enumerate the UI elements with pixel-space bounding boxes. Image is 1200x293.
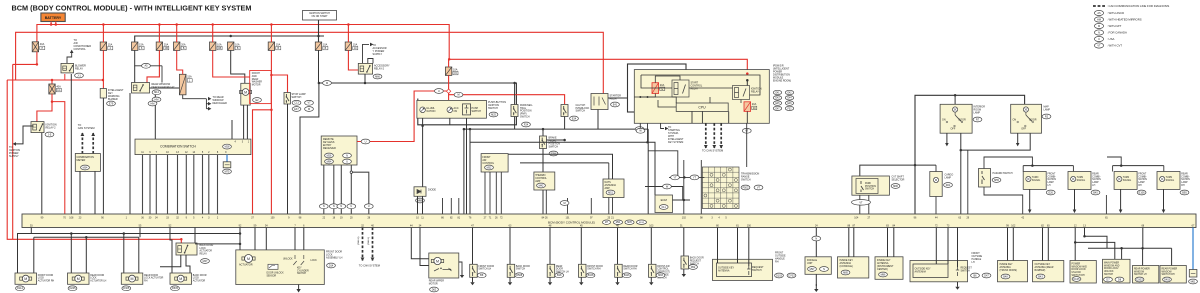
request switch LH symbol <box>956 267 959 276</box>
svg-text:10A: 10A <box>235 43 240 46</box>
CAN line IPDM 2 <box>712 123 716 148</box>
connector F11 <box>659 205 668 210</box>
thermo control amp <box>534 172 555 190</box>
wire TRS feed row <box>669 176 704 178</box>
svg-text:N: N <box>346 154 348 157</box>
wire BCM 54 down <box>265 228 267 250</box>
junction lamp return <box>960 149 963 152</box>
wire BCM 83 to rear bumper antenna 2 <box>1047 228 1049 261</box>
junction <box>647 96 649 98</box>
transmission range switch <box>702 167 739 209</box>
wire CVT to BCM 104 <box>859 195 861 214</box>
svg-text:U: U <box>350 205 352 208</box>
connector M42 <box>537 183 546 188</box>
front door switch LH <box>470 264 478 277</box>
inside key antenna instrument center <box>875 257 903 280</box>
svg-text:YT: YT <box>673 176 677 179</box>
connector N <box>337 204 346 209</box>
connector M96 <box>891 184 900 189</box>
svg-text:IPDM E/R(INTELLIGENTPOWERDISTR: IPDM E/R(INTELLIGENTPOWERDISTRIBUTIONMOD… <box>773 65 791 83</box>
svg-text:10A: 10A <box>276 43 281 46</box>
svg-text:E44: E44 <box>787 98 792 100</box>
connector M <box>323 81 332 86</box>
wire accessory line to BCM 98 <box>300 83 319 214</box>
svg-text:M25: M25 <box>491 113 496 116</box>
arrow to starting system <box>665 127 668 131</box>
wire BCM 81 to outside key antenna RH 2 <box>737 228 739 264</box>
wire to CVT shift selector <box>860 95 915 176</box>
wire push-button switch loop <box>319 83 517 125</box>
connector N <box>343 153 352 158</box>
wire brake switch to clutch line <box>547 139 565 141</box>
wire IPDM left drop 2 <box>647 97 649 142</box>
svg-text:M34: M34 <box>83 166 88 169</box>
connector M <box>560 201 569 206</box>
interior room lamp ground arrow <box>945 133 949 146</box>
svg-text:IGNITIONRELAY-2: IGNITIONRELAY-2 <box>46 124 57 130</box>
svg-text:E46: E46 <box>787 103 792 105</box>
rear combination lamp RH ground wire into BCM <box>1162 189 1166 213</box>
wire room lamp to map lamp <box>961 133 1030 150</box>
connector M86 <box>416 198 425 203</box>
svg-text:D105: D105 <box>1074 278 1081 281</box>
svg-text:M: M <box>1098 25 1100 28</box>
connector B18 <box>555 273 564 278</box>
connector B43 <box>1036 274 1045 279</box>
wire front air control to BCM <box>500 172 502 214</box>
wire PNP switch down <box>514 117 516 130</box>
svg-text:J-1: J-1 <box>77 74 81 77</box>
connector D505 <box>171 286 180 291</box>
junction rear LH feed <box>1141 247 1144 250</box>
wire to actuator 3b <box>138 237 140 273</box>
front combination lamp LH <box>1023 172 1046 190</box>
wire IPDM to TRS <box>746 123 748 167</box>
connector B95 <box>1180 190 1189 195</box>
wire RKE receiver to BCM <box>333 165 335 214</box>
wire red to back door relay <box>180 239 182 243</box>
outside key antenna RH <box>717 263 752 277</box>
wire to stop lamp switch <box>271 75 287 93</box>
fuse 10A 15 <box>445 67 458 75</box>
connector D508 <box>515 273 524 278</box>
push-button ignition switch body <box>417 100 487 118</box>
wire front air control to BCM <box>484 172 486 214</box>
arrow to A/C control <box>70 50 74 53</box>
svg-text:VT: VT <box>859 201 863 204</box>
wire BCM 52 to back door actuator <box>170 228 172 274</box>
junction red branch <box>270 109 273 112</box>
wire accessory relay out up <box>363 44 370 63</box>
wire RKE receiver power red <box>357 91 449 142</box>
wire fuse 10A-CB to washer highlight <box>213 50 250 77</box>
wire combination switch to BCM <box>149 155 151 214</box>
svg-text:: WITH CVT: : WITH CVT <box>1107 44 1122 48</box>
wire BCM 34 to rear wiper motor 2 <box>420 228 429 266</box>
ignition switch ref box <box>303 11 337 21</box>
connector B108 <box>586 273 595 278</box>
wire to BCM pin 98 <box>700 160 702 214</box>
connector E47 <box>773 106 781 110</box>
svg-text:F24: F24 <box>524 123 529 126</box>
wire combination switch to BCM <box>142 155 144 214</box>
wire illumination down <box>422 118 424 126</box>
wire horizontal y129 <box>464 128 648 130</box>
svg-text:B48: B48 <box>1003 275 1008 278</box>
wire BCM 55 down <box>139 228 141 238</box>
wire to BCM 86 <box>442 198 444 214</box>
wire red branch to BCM 37 <box>253 110 272 214</box>
svg-text:N: N <box>323 205 325 208</box>
rear door switch RH <box>615 264 623 277</box>
wire IPDM left drop 1 <box>639 97 641 129</box>
CVT shift selector <box>852 176 890 195</box>
connector J-5 <box>45 132 54 137</box>
junction bus A <box>158 23 161 26</box>
connector W <box>636 128 645 133</box>
wire left rail to door lock power <box>7 80 181 239</box>
svg-text:E43: E43 <box>775 98 780 100</box>
wire blower relay left pin to rail <box>64 74 66 80</box>
junction bus A <box>347 23 350 26</box>
CAN line IPDM 1 <box>704 123 708 148</box>
connector M28 <box>223 144 232 149</box>
connector M93 <box>656 273 665 278</box>
connector N <box>319 204 328 209</box>
svg-text:DOOR: DOOR <box>1029 119 1036 122</box>
svg-text:CPU: CPU <box>698 106 706 110</box>
connector D703 <box>787 273 796 278</box>
wire wiper motor ground lead <box>459 262 462 270</box>
fuse 15A 1 <box>179 74 192 95</box>
wire ignition bus C <box>135 36 324 42</box>
svg-text:AS: AS <box>1097 12 1101 15</box>
svg-text:LOCK: LOCK <box>311 260 318 262</box>
wire fuse to washer motor <box>231 50 245 83</box>
svg-text:10A: 10A <box>453 68 458 71</box>
wire BCM 7 down <box>294 228 296 256</box>
svg-text:M: M <box>436 259 439 263</box>
fuse 20A CB <box>156 42 169 50</box>
connector E42 <box>785 90 793 94</box>
junction turn LH <box>1031 164 1034 167</box>
front and rear washer motor <box>241 83 250 105</box>
front outside handle RH assembly <box>713 259 773 280</box>
svg-text:M51: M51 <box>608 191 613 194</box>
front combination lamp RH bulb symbol <box>1117 176 1122 181</box>
connector M26 <box>325 153 334 158</box>
wire fuse to ignition feed line <box>318 50 320 83</box>
svg-text:20A: 20A <box>752 103 757 106</box>
connector V7 <box>305 100 314 105</box>
svg-text:: CAN COMMUNICATION LINE FOR D: : CAN COMMUNICATION LINE FOR DIAGNOSIS <box>1107 4 1169 8</box>
wire combination switch to BCM <box>155 155 157 214</box>
open junction circle <box>350 171 352 173</box>
wire to diode <box>422 126 424 187</box>
combination meter <box>75 154 100 172</box>
svg-text:G: G <box>661 89 663 91</box>
svg-text:B108: B108 <box>588 274 594 277</box>
wire IPDM internal to CPU <box>709 97 711 103</box>
diode <box>414 187 426 197</box>
svg-text:N: N <box>1098 31 1100 34</box>
svg-text:10A: 10A <box>323 43 328 46</box>
svg-text:E34: E34 <box>572 117 577 120</box>
svg-text:U: U <box>346 160 348 163</box>
wire y129 to BCM 2 <box>469 129 471 214</box>
svg-text:10A: 10A <box>217 43 222 46</box>
wire BCM 83 to instrument antenna <box>887 228 889 257</box>
svg-text:F11: F11 <box>662 206 667 209</box>
junction bus A <box>50 23 53 26</box>
back door request switch <box>681 256 689 269</box>
inside key antenna trunk room <box>998 261 1028 282</box>
svg-text:100: 100 <box>747 225 752 228</box>
svg-text:C13: C13 <box>294 102 299 105</box>
front door switch LH ground <box>470 277 474 285</box>
junction turn RH <box>1120 164 1123 167</box>
wire combination switch to BCM <box>202 155 204 214</box>
svg-text:M95: M95 <box>627 222 632 224</box>
stop lamp switch <box>284 93 290 105</box>
wire IPDM internal 2 <box>640 94 655 98</box>
wire NATS to BCM 25 <box>608 198 610 215</box>
svg-text:M94: M94 <box>327 160 332 163</box>
rear power window switch RH <box>1160 266 1186 284</box>
wire fuse 10A-15 down <box>448 75 450 118</box>
svg-text:F502: F502 <box>743 186 749 189</box>
wire BCM 88 to console antenna <box>848 228 850 257</box>
wire washer motor to combination switch <box>243 105 245 139</box>
door unlock sensor symbol <box>268 264 278 269</box>
wire BCM 84 to instrument antenna 2 <box>893 228 895 257</box>
wire left rail 2 <box>12 64 14 239</box>
wire starter relay down <box>597 110 599 130</box>
rear wiper motor contact <box>434 268 452 271</box>
svg-text:D305: D305 <box>123 287 130 290</box>
wire relay to assembly rail <box>195 243 240 245</box>
ignition relay-2 <box>31 122 44 133</box>
wire ECM feed row <box>645 187 683 201</box>
junction <box>639 96 641 98</box>
svg-text:B43: B43 <box>1038 275 1043 278</box>
svg-text:15A: 15A <box>187 76 192 79</box>
wire ignition relay-2 to ignition power supply <box>16 126 34 144</box>
svg-text:E42: E42 <box>787 92 792 94</box>
fuse 10A 10 <box>345 42 358 50</box>
connector E41 <box>773 90 781 94</box>
svg-text:ILLUMI-NATION: ILLUMI-NATION <box>427 107 436 113</box>
svg-text:CB: CB <box>165 48 169 50</box>
front outside handle LH assembly <box>910 261 968 282</box>
connector E43 <box>773 96 781 100</box>
wire to interior room lamp <box>954 95 956 104</box>
wire thermo amp to BCM 26 <box>545 190 547 214</box>
svg-text:N: N <box>340 205 342 208</box>
wire stop lamp switch to BCM 9 <box>287 104 289 214</box>
wire fusible link H out <box>13 52 37 65</box>
connector E26 <box>1046 190 1055 195</box>
fuse 20A G <box>652 83 665 94</box>
junction stop lamp feed <box>270 74 273 77</box>
park/neutral position switch <box>511 105 518 117</box>
rear wiper ground <box>460 270 464 278</box>
cargo lamp <box>930 172 942 197</box>
fuse 10A B <box>228 42 241 50</box>
connector M94 <box>613 220 622 224</box>
connector E44 <box>785 96 793 100</box>
wire washer motor 3 <box>231 120 233 139</box>
svg-text:M14: M14 <box>154 91 159 94</box>
connector VT <box>742 128 751 133</box>
connector D14 <box>327 263 336 268</box>
front air control defrost switch <box>649 264 657 277</box>
ECM <box>655 195 673 213</box>
wire buzzer to BCM pin 90 <box>102 98 104 214</box>
wire IPDM internal relay link <box>689 87 733 89</box>
connector D52 <box>689 265 698 270</box>
svg-text:M61: M61 <box>1191 280 1196 283</box>
connector B45 <box>1091 190 1100 195</box>
cargo lamp bulb <box>933 177 938 182</box>
dongle unit <box>805 257 831 275</box>
svg-text:D114: D114 <box>17 287 23 290</box>
svg-text:D403: D403 <box>1164 278 1171 281</box>
svg-text:B116: B116 <box>624 274 630 277</box>
junction TRS row <box>683 176 686 179</box>
svg-text:M26: M26 <box>327 154 332 157</box>
fuse 20A 49 <box>744 102 757 112</box>
connector E37 <box>292 107 301 112</box>
map lamp <box>1011 104 1042 133</box>
connector D105 <box>1072 277 1081 282</box>
connector N <box>812 236 821 241</box>
connector M94 <box>325 159 334 164</box>
svg-text:101: 101 <box>566 216 571 219</box>
wire combination switch to BCM <box>177 155 179 214</box>
svg-text:M96: M96 <box>893 185 898 188</box>
svg-text:D62: D62 <box>432 288 437 291</box>
wire hazard feed stub <box>983 160 985 169</box>
wire bracket to lamp 2 <box>1072 166 1074 172</box>
junction IPDM power <box>746 72 749 75</box>
svg-text:: USA: : USA <box>1107 37 1114 41</box>
svg-text:ECM: ECM <box>661 198 668 202</box>
connector U <box>347 204 356 209</box>
battery <box>41 13 65 22</box>
rear door lock actuator RH motor <box>126 275 138 282</box>
svg-text:LG: LG <box>57 90 60 92</box>
legend oval HM <box>1094 17 1103 22</box>
wire bus A to fuse <box>270 25 272 43</box>
connector D7 <box>1104 277 1113 282</box>
front door switch LH feed wire <box>472 228 474 265</box>
svg-text:U: U <box>1098 38 1100 41</box>
wire front air control to BCM <box>489 172 491 214</box>
clutch interlock switch <box>561 105 568 117</box>
wire CPU down 2 <box>701 111 703 123</box>
svg-text:ON: ON <box>942 119 946 122</box>
wire y129 right end down to BCM <box>647 129 649 214</box>
connector R21 <box>944 183 953 188</box>
wire BCM 6 down <box>303 228 305 256</box>
washer motor symbol <box>240 89 252 96</box>
wire BCM 80 to outside key antenna RH <box>717 228 719 264</box>
map lamp internals <box>1017 107 1034 127</box>
wire NATS to BCM 21 <box>612 198 614 215</box>
wire to BCM 81 <box>1105 195 1107 214</box>
connector B6 <box>971 273 980 278</box>
wire door lock feed rail <box>18 234 241 274</box>
CAN line IPDM 3 <box>719 123 723 148</box>
wire to fuse 10A-15 <box>448 59 450 67</box>
front door switch RH ground <box>579 277 583 285</box>
wire lower rail power window <box>1088 247 1172 249</box>
svg-text:10A: 10A <box>353 43 358 46</box>
svg-text:D303: D303 <box>1137 278 1144 281</box>
svg-text:M: M <box>247 257 250 261</box>
diode symbol <box>417 190 421 194</box>
svg-text:102: 102 <box>1011 225 1016 228</box>
wire BCM 87 to console antenna 2 <box>853 228 855 257</box>
junction power window b <box>1083 235 1086 238</box>
wire CVT to BCM 27 <box>868 195 870 214</box>
intelligent key warning buzzer <box>100 89 106 99</box>
back door lock actuator <box>170 273 192 284</box>
wire battery bus B <box>16 32 604 93</box>
wire diode to BCM 2 <box>422 196 424 214</box>
connector U <box>343 159 352 164</box>
wire bus A to fuse <box>102 25 104 43</box>
connector D305 <box>122 286 131 291</box>
svg-text:M75: M75 <box>225 170 230 173</box>
request switch RH symbol <box>747 266 750 275</box>
option oval YT 3 <box>690 175 699 180</box>
connector M61 <box>1189 279 1198 284</box>
wire battery lead 1 <box>50 22 52 25</box>
wire relay1 to CPU <box>740 100 742 104</box>
connector R2 <box>1042 114 1051 119</box>
ignition relay-1 <box>733 86 750 100</box>
wire IPDM internal 1 <box>655 76 680 83</box>
connector F24 <box>522 122 531 127</box>
svg-text:M: M <box>457 94 459 97</box>
svg-text:VT: VT <box>757 186 761 189</box>
wire diode to BCM <box>417 196 419 214</box>
wire BCM 100 to request switch RH <box>748 228 750 267</box>
connector M95 <box>625 220 634 224</box>
junction PNP feed <box>513 82 516 85</box>
wire battery lead 2 <box>55 22 57 25</box>
wire turn RH feed <box>1107 157 1121 166</box>
front door lock actuator RH <box>15 273 37 284</box>
svg-text:D703: D703 <box>789 274 796 277</box>
svg-text:OFF: OFF <box>1021 128 1026 131</box>
wire to BCM 97 <box>590 198 592 214</box>
connector D103 <box>775 273 784 278</box>
junction bus C <box>229 35 232 38</box>
svg-text:102: 102 <box>682 216 687 219</box>
legend oval U <box>1094 36 1103 41</box>
junction y129 <box>639 128 642 131</box>
legend oval M <box>1094 23 1103 28</box>
svg-text:U: U <box>368 205 370 208</box>
front door switch RH feed wire <box>580 228 582 265</box>
interior room lamp internals <box>946 107 963 127</box>
arrow to rear window defogger <box>208 97 211 101</box>
wire clutch switch down <box>564 117 566 130</box>
svg-text:TO CAN SYSTEM: TO CAN SYSTEM <box>359 264 380 268</box>
